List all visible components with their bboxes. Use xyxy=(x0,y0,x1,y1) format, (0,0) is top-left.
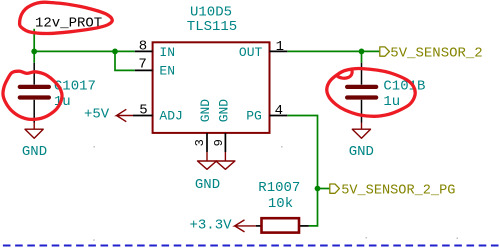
svg-text:7: 7 xyxy=(138,57,146,73)
wire main horizontal to pin 8 xyxy=(34,50,135,52)
svg-text:GND: GND xyxy=(198,99,213,123)
svg-text:8: 8 xyxy=(139,39,147,55)
svg-text:GND: GND xyxy=(195,177,220,193)
junction at EN branch xyxy=(112,49,118,55)
ground below C1017 xyxy=(22,129,47,160)
pin 5 ADJ xyxy=(133,103,153,119)
wire 12v_PROT vertical to C1017 xyxy=(33,29,35,63)
svg-text:C101B: C101B xyxy=(383,78,425,94)
wire stub to PG label xyxy=(318,188,330,190)
ground for pin 3 xyxy=(198,161,217,169)
pin 4 PG xyxy=(270,103,288,119)
annotation red circle around C1017 xyxy=(3,71,62,119)
capacitor C1017 xyxy=(20,63,96,129)
junction at C1018 xyxy=(359,49,365,55)
pin 8 IN xyxy=(135,39,153,55)
pin 9 GND xyxy=(212,133,226,161)
svg-text:OUT: OUT xyxy=(239,45,263,60)
junction at 12v_PROT xyxy=(31,49,37,55)
annotation red circle around 12v_PROT xyxy=(20,2,113,33)
IC U10D5 TLS115 voltage regulator xyxy=(153,4,270,133)
svg-text:IN: IN xyxy=(159,45,175,60)
capacitor C1018 xyxy=(347,63,425,129)
svg-text:GND: GND xyxy=(22,144,47,160)
annotation red circle around C1018 xyxy=(327,68,415,116)
ground below C1018 xyxy=(349,129,374,160)
svg-text:EN: EN xyxy=(159,64,175,79)
svg-text:R1007: R1007 xyxy=(258,180,300,196)
junction at PG label xyxy=(315,186,321,192)
svg-text:+3.3V: +3.3V xyxy=(190,218,233,234)
svg-text:1u: 1u xyxy=(383,94,400,110)
pin 3 GND xyxy=(193,133,207,161)
node 5V_SENSOR_2 global label xyxy=(380,45,483,61)
svg-text:GND: GND xyxy=(349,144,374,160)
wire to EN pin 7 xyxy=(115,51,135,70)
svg-text:5V_SENSOR_2: 5V_SENSOR_2 xyxy=(390,45,482,61)
svg-text:10k: 10k xyxy=(268,196,293,212)
svg-text:1: 1 xyxy=(276,39,284,55)
power symbol +5V on ADJ xyxy=(84,107,133,123)
svg-text:ADJ: ADJ xyxy=(159,109,182,124)
svg-text:5: 5 xyxy=(139,103,147,119)
pin 1 OUT xyxy=(270,39,288,55)
svg-text:3: 3 xyxy=(193,139,207,146)
svg-text:+5V: +5V xyxy=(84,107,110,123)
svg-text:4: 4 xyxy=(275,103,283,119)
svg-text:PG: PG xyxy=(246,108,262,123)
node 5V_SENSOR_2_PG global label xyxy=(330,184,456,199)
pin 7 EN xyxy=(135,57,153,73)
wire down to C1018 xyxy=(361,51,363,62)
svg-text:GND: GND xyxy=(217,99,232,123)
svg-text:TLS115: TLS115 xyxy=(187,19,237,35)
resistor R1007 xyxy=(256,180,309,232)
wire PG to resistor xyxy=(287,116,317,226)
wire dashed blue separator xyxy=(3,245,499,247)
wire OUT to label xyxy=(287,50,379,52)
ground for pin 9 xyxy=(216,161,235,169)
power symbol +3.3V on resistor xyxy=(190,218,256,234)
svg-text:9: 9 xyxy=(212,139,226,146)
svg-text:5V_SENSOR_2_PG: 5V_SENSOR_2_PG xyxy=(341,184,455,199)
